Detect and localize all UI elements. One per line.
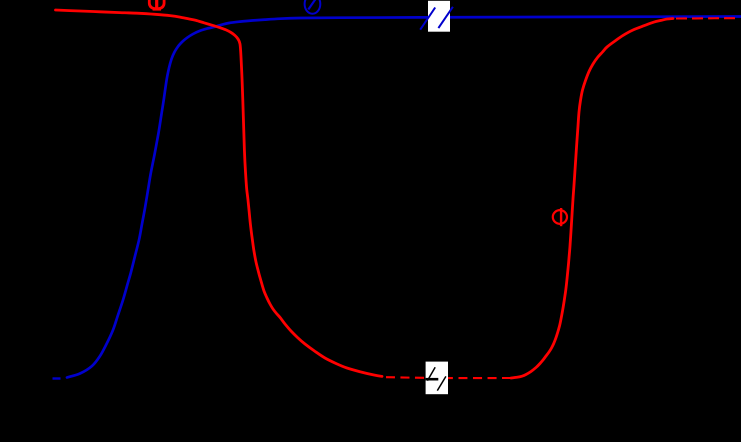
curve psi (red) left segment solid [56,10,383,376]
axis break marker top: blue slash 1 [420,8,435,30]
label psi serif foot [153,9,161,10]
label psi (red, clipped at top edge) [149,0,164,9]
curve phi (blue) start dash [53,377,61,379]
curve psi (red) right rise solid [511,19,673,379]
curve psi (red) top-right dashed [676,17,735,19]
axis break marker top: blue slash 2 [438,7,453,28]
curve phi (blue) main [67,17,741,378]
axis break marker bottom: white box [426,362,448,395]
label phi (blue, clipped at top edge) [305,0,321,14]
axis break marker bottom: black axis stub [426,378,439,381]
axis break marker bottom: black slash 2 [437,376,446,390]
label theta (red) [553,208,567,226]
curve psi (red) bottom dashed flat [386,376,511,379]
axis break marker top: white box [428,1,450,32]
axis break marker bottom: black slash 1 [427,367,435,381]
